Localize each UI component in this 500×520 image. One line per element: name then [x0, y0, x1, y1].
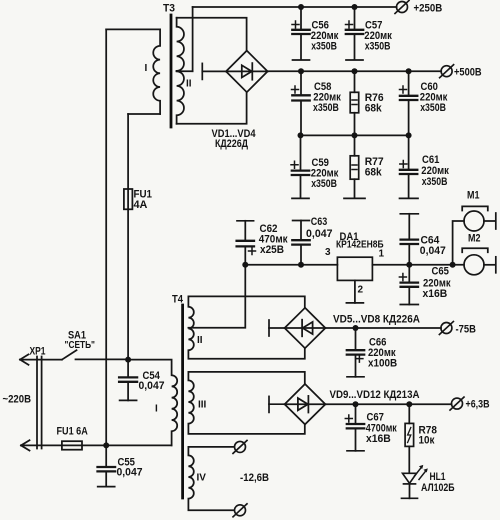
wire +250V rail: [193, 6, 397, 8]
capacitor C57: [346, 7, 393, 60]
transformer T3 core: [170, 15, 173, 127]
wire +500V rail: [268, 70, 442, 72]
wire tap drop from mid rail to T4 winding II: [188, 265, 245, 328]
svg-text:II: II: [186, 79, 192, 90]
svg-text:I: I: [145, 63, 148, 74]
terminal +250V: [395, 1, 409, 14]
svg-text:III: III: [198, 400, 207, 411]
capacitor C64: [400, 214, 446, 265]
transformer T4 core: [181, 305, 184, 498]
svg-text:68k: 68k: [365, 102, 383, 114]
terminal -75V: [439, 322, 453, 335]
svg-text:VD9...VD12 КД213А: VD9...VD12 КД213А: [330, 389, 420, 401]
svg-text:x25В: x25В: [260, 244, 284, 256]
connector XP1 pin 1 arrow: [20, 354, 29, 364]
junction dots top rails: [298, 4, 412, 138]
terminal +500V: [440, 65, 454, 78]
VD9 bridge AC bar terminal: [269, 396, 285, 412]
svg-text:~220В: ~220В: [3, 394, 32, 406]
svg-text:2: 2: [358, 285, 364, 296]
svg-text:+500В: +500В: [454, 66, 482, 78]
svg-text:FU1 6A: FU1 6A: [57, 426, 88, 438]
VD1 bridge AC bar terminal: [202, 63, 226, 79]
wire middle bus rail3: [301, 134, 409, 136]
svg-text:-75В: -75В: [456, 324, 476, 336]
svg-text:x350В: x350В: [420, 102, 446, 114]
resistor R78: [405, 404, 437, 473]
capacitor C55: [98, 445, 143, 486]
LED HL1: [402, 465, 455, 498]
svg-text:I: I: [155, 404, 158, 415]
wire T3 primary bottom branch: [127, 114, 129, 360]
transformer T3 winding II: [177, 18, 184, 124]
terminal winding IV bottom: [233, 504, 247, 517]
wire switch to node: [76, 358, 129, 360]
svg-text:M1: M1: [467, 190, 480, 202]
capacitor C56: [292, 7, 339, 60]
transformer T4 winding II: [188, 296, 304, 358]
terminal winding IV top: [233, 440, 247, 453]
fuse FU1 4A: [124, 189, 132, 209]
motor M2: [462, 233, 496, 275]
svg-text:0,047: 0,047: [420, 245, 446, 257]
motor M1: [453, 190, 496, 265]
wire -75V output: [325, 327, 441, 329]
wire T3 winding I top lead: [106, 28, 160, 30]
wire mains top to switch: [20, 359, 62, 361]
wire T3 winding II bottom to bridge bottom: [177, 92, 247, 124]
wire DA1 output rail: [372, 264, 464, 266]
wire +250V rail down to tap: [192, 7, 194, 71]
svg-text:x350В: x350В: [365, 41, 391, 53]
wire T3 winding II tap: [177, 70, 193, 72]
diode bridge VD5...VD8: [285, 308, 326, 348]
svg-text:-12,6В: -12,6В: [240, 472, 269, 484]
wire left branch T3 primary top: [105, 29, 107, 445]
svg-text:+250В: +250В: [414, 2, 443, 14]
transformer T4 winding IV: [188, 447, 234, 510]
wire mid rail DA1 input: [245, 264, 337, 266]
wire T3 winding II top to bridge top: [177, 18, 247, 51]
svg-text:3: 3: [325, 247, 331, 258]
diode bridge VD9...VD12: [285, 384, 326, 424]
svg-text:0,047: 0,047: [306, 228, 333, 240]
svg-text:x350В: x350В: [311, 41, 337, 53]
fuse FU1 6A: [62, 441, 82, 450]
capacitor C67: [345, 404, 397, 451]
transformer T4 winding III: [188, 372, 304, 434]
svg-text:x350В: x350В: [311, 178, 337, 190]
svg-text:x100В: x100В: [368, 357, 397, 369]
svg-text:C63: C63: [311, 216, 328, 228]
svg-text:68k: 68k: [365, 167, 383, 179]
junction dots bottom: [103, 325, 412, 448]
wire +6,3V output: [325, 403, 451, 405]
capacitor C65: [399, 265, 451, 305]
op-amp regulator DA1: [325, 231, 385, 303]
svg-text:10к: 10к: [419, 435, 435, 447]
connector XP1 pin 2 arrow: [21, 440, 30, 450]
svg-text:КР142ЕН8Б: КР142ЕН8Б: [336, 240, 384, 251]
terminal +6,3V: [450, 397, 464, 410]
capacitor C58: [292, 71, 342, 135]
svg-text:x16В: x16В: [366, 433, 391, 445]
svg-text:+6,3В: +6,3В: [466, 399, 490, 411]
wire mains bottom: [21, 444, 172, 446]
svg-text:x16В: x16В: [423, 288, 448, 300]
svg-text:АЛ102Б: АЛ102Б: [421, 482, 455, 494]
svg-text:"СЕТЬ": "СЕТЬ": [65, 340, 96, 351]
capacitor C62: [237, 221, 288, 265]
svg-text:T3: T3: [163, 3, 175, 15]
connector XP1 body double line: [37, 357, 42, 449]
transformer T3 winding I: [153, 29, 160, 114]
svg-text:II: II: [197, 335, 203, 346]
svg-text:C65: C65: [432, 266, 449, 278]
switch SA1 blade: [62, 350, 77, 359]
junction dots mid rail: [242, 262, 455, 268]
capacitor C54: [119, 360, 164, 401]
svg-text:IV: IV: [197, 473, 207, 484]
capacitor C59: [291, 135, 339, 198]
svg-text:x350В: x350В: [313, 102, 339, 114]
svg-text:M2: M2: [468, 233, 481, 245]
VD5 bridge AC bar terminal: [269, 320, 285, 336]
resistor R76: [350, 71, 384, 135]
capacitor C61: [400, 135, 450, 198]
capacitor C60: [400, 71, 448, 135]
resistor R77: [344, 135, 384, 198]
wire T3 winding I bottom lead: [128, 113, 160, 115]
capacitor C63: [292, 216, 332, 265]
svg-text:0,047: 0,047: [117, 467, 143, 479]
svg-text:VD5...VD8 КД226А: VD5...VD8 КД226А: [333, 314, 420, 326]
transformer T4 winding I: [128, 360, 177, 446]
svg-text:0,047: 0,047: [139, 380, 165, 392]
capacitor C66: [347, 328, 397, 377]
svg-text:1: 1: [379, 249, 385, 260]
svg-text:x350В: x350В: [422, 176, 448, 188]
svg-text:4A: 4A: [134, 199, 148, 211]
svg-text:КД226Д: КД226Д: [215, 138, 248, 150]
diode bridge VD1...VD4: [226, 51, 268, 93]
